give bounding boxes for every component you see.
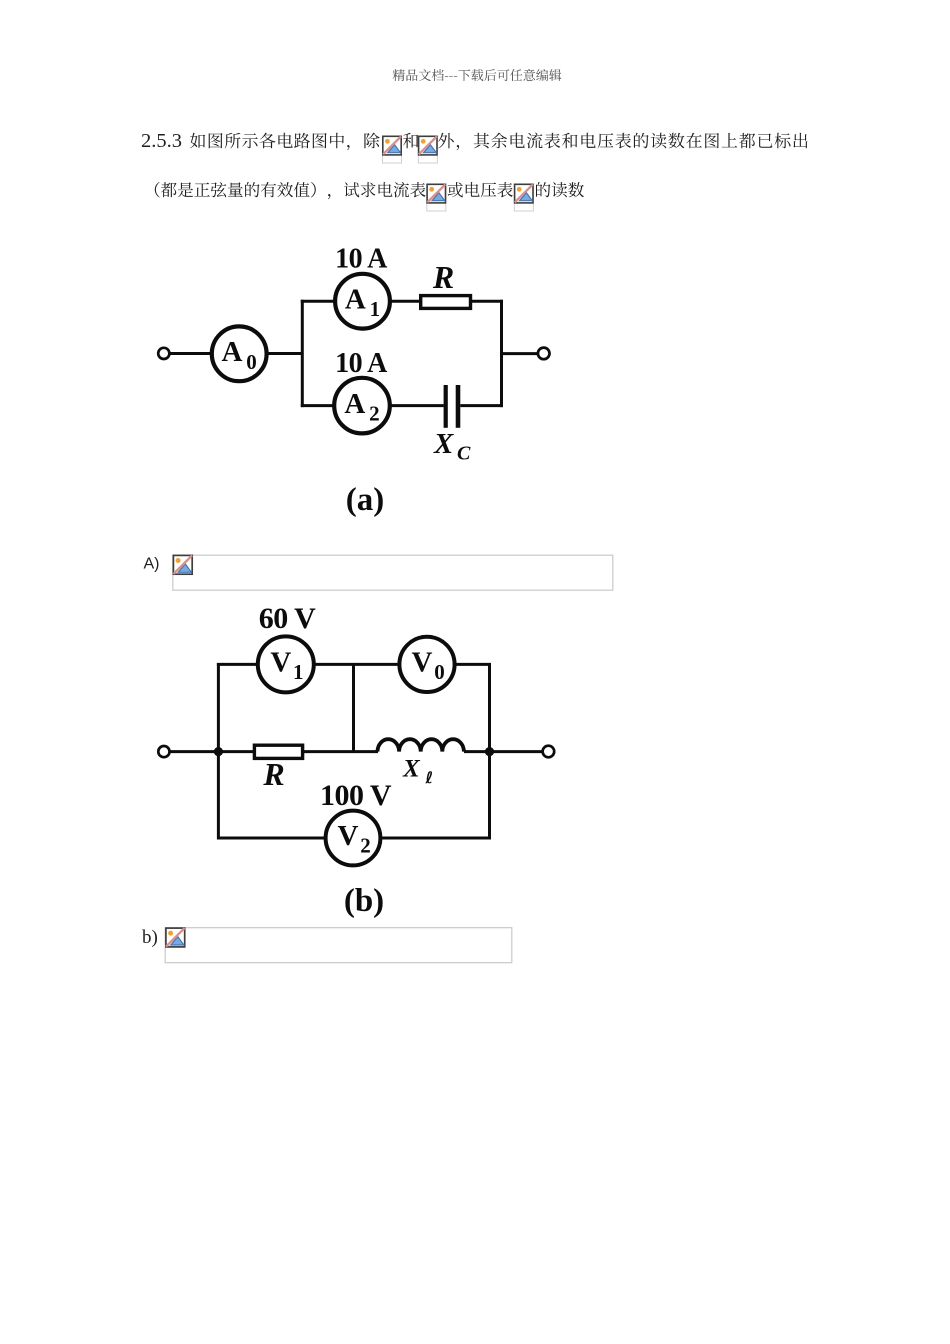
text line 1 part b: 和 bbox=[403, 133, 418, 149]
svg-text:1: 1 bbox=[293, 660, 304, 684]
terminal right (b) bbox=[543, 746, 555, 758]
wire: top branch to A1 bbox=[301, 300, 336, 303]
svg-text:10 A: 10 A bbox=[335, 244, 388, 275]
svg-text:X: X bbox=[433, 428, 454, 460]
voltmeter V0 bbox=[399, 637, 454, 692]
terminal left (b) bbox=[158, 746, 169, 757]
wire: left terminal to left junction bbox=[170, 750, 254, 753]
svg-text:V: V bbox=[338, 820, 359, 852]
text line 1 part c: 外，其余电流表和电压表的读数在图上都已标出 bbox=[438, 133, 807, 151]
resistor R (b) bbox=[254, 745, 302, 758]
wire: middle vertical bbox=[352, 664, 355, 751]
svg-text:V: V bbox=[270, 647, 291, 679]
ammeter A2 bbox=[334, 378, 390, 434]
wire: right junction vertical (a) bbox=[500, 300, 503, 407]
voltmeter V1 bbox=[258, 636, 314, 692]
wire: V1 to V0 bbox=[314, 663, 400, 666]
terminal left (a) bbox=[158, 348, 169, 359]
text line 2 part b: 或电压表 bbox=[448, 182, 513, 198]
svg-text:R: R bbox=[432, 259, 454, 295]
header line: 精品文档---下载后可任意编辑 bbox=[393, 69, 562, 81]
wire: top left to V1 bbox=[217, 663, 258, 666]
answer box A bbox=[173, 555, 613, 590]
capacitor XC left plate bbox=[444, 385, 448, 428]
broken-image icon in box A bbox=[173, 555, 192, 574]
svg-text:V: V bbox=[412, 647, 433, 679]
svg-text:A: A bbox=[222, 336, 243, 368]
svg-text:A): A) bbox=[144, 555, 160, 572]
voltmeter V2 bbox=[326, 811, 381, 866]
wire: V0 to right vertical bbox=[455, 663, 491, 666]
svg-text:X: X bbox=[402, 756, 421, 783]
svg-text:(a): (a) bbox=[346, 482, 384, 518]
wire: A1 to resistor R bbox=[390, 300, 420, 303]
svg-text:0: 0 bbox=[246, 350, 256, 374]
svg-text:2: 2 bbox=[360, 834, 371, 858]
answer box B bbox=[165, 928, 512, 963]
svg-text:(b): (b) bbox=[344, 883, 384, 919]
wire: bottom branch to A2 bbox=[301, 404, 335, 407]
wire: V2 to right vertical bbox=[381, 837, 490, 840]
text line 2 part c: 的读数 bbox=[536, 182, 584, 197]
junction dot right bbox=[485, 747, 494, 756]
svg-text:A: A bbox=[344, 388, 365, 420]
svg-text:R: R bbox=[262, 756, 284, 792]
broken-image icon in box B bbox=[166, 928, 185, 947]
inductor XL bbox=[378, 739, 464, 751]
wire: capacitor to right vertical bbox=[460, 404, 503, 407]
svg-text:1: 1 bbox=[370, 297, 381, 321]
wire: A0 to left junction bbox=[265, 352, 302, 355]
wire: right vertical bbox=[488, 663, 491, 840]
junction dot left bbox=[214, 747, 223, 756]
wire: left junction vertical bbox=[301, 300, 304, 407]
text line 1 part a: 如图所示各电路图中，除 bbox=[190, 133, 380, 151]
svg-text:2.5.3: 2.5.3 bbox=[141, 130, 182, 152]
wire: inductor to right terminal bbox=[464, 750, 543, 753]
svg-text:C: C bbox=[457, 443, 471, 465]
wire: resistor to right vertical bbox=[471, 300, 503, 303]
resistor R (a) bbox=[421, 296, 471, 309]
wire: resistor to inductor bbox=[303, 750, 378, 753]
ammeter A0 bbox=[212, 326, 267, 381]
svg-text:2: 2 bbox=[369, 402, 380, 426]
wire: left vertical bbox=[217, 663, 220, 840]
wire: bottom left to V2 bbox=[218, 837, 325, 840]
terminal right (a) bbox=[538, 348, 550, 360]
wire: left terminal to A0 bbox=[170, 352, 213, 355]
svg-text:10 A: 10 A bbox=[335, 348, 388, 379]
ammeter A1 bbox=[335, 274, 390, 329]
inline broken-image icon 3 bbox=[427, 184, 446, 211]
wire: A2 to capacitor bbox=[390, 404, 444, 407]
inline broken-image icon 2 bbox=[418, 136, 437, 163]
inline broken-image icon 1 bbox=[383, 136, 402, 163]
text line 2 part a: （都是正弦量的有效值），试求电流表 bbox=[155, 182, 426, 199]
inline broken-image icon 4 bbox=[514, 184, 533, 211]
svg-text:0: 0 bbox=[434, 660, 445, 684]
capacitor XC right plate bbox=[456, 385, 461, 428]
svg-text:60 V: 60 V bbox=[259, 602, 316, 635]
svg-text:A: A bbox=[345, 283, 366, 315]
wire: right vertical to right terminal bbox=[502, 352, 538, 355]
svg-text:100 V: 100 V bbox=[320, 779, 392, 812]
svg-text:b): b) bbox=[142, 927, 158, 948]
